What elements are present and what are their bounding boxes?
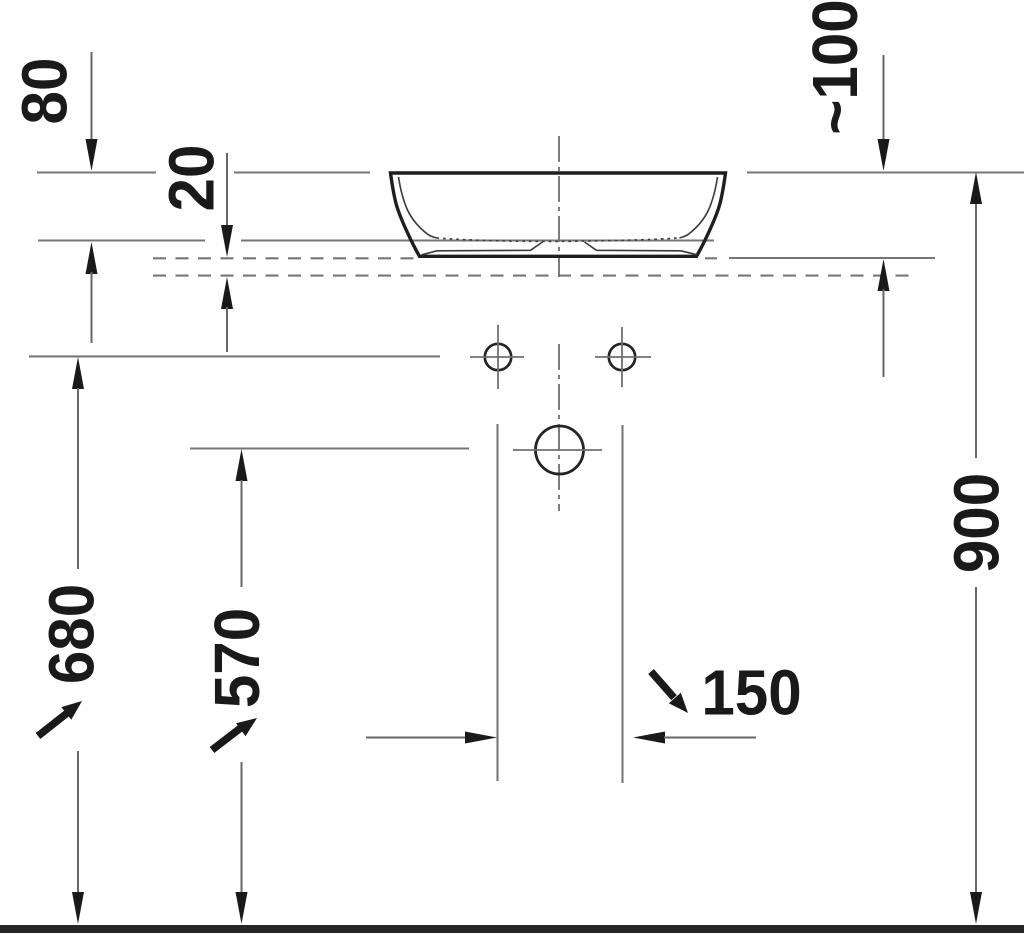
- svg-text:20: 20: [157, 145, 228, 212]
- arrow up to dashed line 2 (dim 20): [221, 277, 233, 309]
- arrow up to line D (dim 570): [236, 449, 248, 481]
- arrow down to floor (dim 680): [72, 892, 84, 924]
- washbasin inner wall right: [680, 177, 718, 238]
- dimension 150 left tail: [366, 737, 465, 739]
- wire: top reference line A (rim level) left segment: [37, 171, 156, 173]
- wire: faucet-hole reference line C: [29, 355, 440, 357]
- drain hole circle: [536, 426, 584, 474]
- svg-text:680: 680: [37, 584, 108, 684]
- svg-text:900: 900: [942, 473, 1013, 573]
- dimension 150 right tail: [664, 737, 756, 739]
- faucet hole circle right: [609, 344, 635, 370]
- arrow down to dashed line 1 (dim 20): [221, 225, 233, 257]
- arrow up to line B (dim 80): [86, 242, 98, 274]
- wire: dashed counter underside line 2: [153, 275, 915, 277]
- arrow up to line A (dim 900): [970, 172, 982, 204]
- washbasin foot line left: [422, 242, 543, 255]
- arrow down to line A (dim ~100): [878, 139, 890, 171]
- wire: counter top line B: [38, 239, 205, 241]
- node: vertical centerline lower run: [558, 344, 560, 511]
- floor line: [0, 925, 1024, 933]
- faucet hole circle left: [485, 344, 511, 370]
- svg-text:570: 570: [202, 608, 273, 708]
- arrow down to floor (dim 570): [236, 892, 248, 924]
- arrow left toward right hole line (dim 150): [633, 732, 665, 744]
- arrow right to left hole line (dim 150): [465, 732, 497, 744]
- washbasin outer profile: [391, 173, 726, 256]
- washbasin inner wall left: [399, 177, 437, 238]
- dimension ~100 lower tail: [883, 289, 885, 377]
- dimension 900 lower line: [975, 587, 977, 892]
- dimension 570 upper line: [241, 480, 243, 587]
- washbasin inner bottom dotted line: [437, 238, 680, 242]
- arrow down to floor (dim 900): [970, 892, 982, 924]
- dimension 80 lower tail: [91, 272, 93, 343]
- arrow down to line A (dim 80): [86, 139, 98, 171]
- centerline cross of drain hole: [513, 449, 602, 451]
- svg-text:~100: ~100: [800, 0, 871, 135]
- dimension 80 upper line: [91, 52, 93, 142]
- wire: extension line below left hole: [496, 424, 498, 781]
- wire: solid underside line right: [729, 257, 935, 259]
- wire: dashed counter underside line 1: [153, 257, 418, 259]
- centerline cross of left hole: [470, 356, 524, 358]
- svg-text:80: 80: [10, 58, 81, 125]
- dimension 570 lower line: [241, 762, 243, 892]
- leader arrow for 680: [38, 701, 82, 736]
- dimension ~100 upper line: [883, 55, 885, 142]
- wire: dashed line 1 stub right of basin: [705, 257, 717, 259]
- wire: line A right segment: [747, 171, 1024, 173]
- centerline cross of right hole: [595, 356, 651, 358]
- dimension 20 lower tail: [226, 307, 228, 352]
- arrow up to line C (dim 680): [72, 357, 84, 389]
- node: vertical centerline upper run: [558, 136, 560, 277]
- leader arrow for 150: [651, 672, 688, 714]
- arrow up to underside line (dim ~100): [878, 259, 890, 291]
- leader arrow for 570: [212, 718, 257, 750]
- wire: drain reference line D: [190, 447, 469, 449]
- dimension 680 lower line: [77, 751, 79, 892]
- wire: line A middle segment: [234, 171, 370, 173]
- wire: line B behind basin: [241, 239, 714, 241]
- wire: extension line below right hole: [621, 425, 623, 783]
- dimension 680 upper line: [77, 388, 79, 569]
- dimension 20 upper line: [226, 153, 228, 228]
- svg-text:150: 150: [701, 658, 801, 729]
- dimension 900 upper line: [975, 204, 977, 458]
- washbasin foot line right: [585, 242, 698, 255]
